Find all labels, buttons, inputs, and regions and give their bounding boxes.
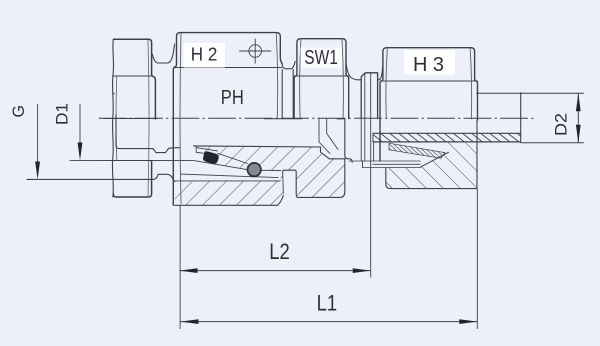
O-ring seal (gray circle) xyxy=(248,163,261,176)
dimensions xyxy=(9,93,581,329)
nut hex H3 outline xyxy=(380,48,478,161)
dim L1 xyxy=(181,189,478,329)
svg-text:L1: L1 xyxy=(317,291,338,316)
solid bore edge segment under H2-SW1 neck xyxy=(264,118,302,120)
label box H3 xyxy=(404,50,455,75)
centerline solid segment under union nut xyxy=(104,118,158,120)
neck between H2 and SW1 (upper) xyxy=(282,62,295,69)
tube tip groove to body mouth xyxy=(153,148,180,153)
svg-text:D1: D1 xyxy=(52,103,71,125)
texts xyxy=(191,44,444,109)
body hex SW1 outline xyxy=(294,39,349,119)
svg-text:PH: PH xyxy=(221,87,244,109)
svg-text:H 2: H 2 xyxy=(191,44,218,64)
dim D2 xyxy=(552,93,581,143)
tube end vertical xyxy=(520,93,522,143)
tube wall section strip (right) xyxy=(373,133,521,161)
dim D1 xyxy=(52,103,82,161)
label box SW1 xyxy=(301,48,343,68)
cutting ring wedge (right, fine hatch) xyxy=(389,143,445,158)
speck on union nut flat xyxy=(113,93,115,95)
tube D2 (right, upper outline) xyxy=(477,92,584,94)
D2 lower extension line xyxy=(522,142,584,144)
line right of O-ring xyxy=(261,169,281,171)
svg-text:SW1: SW1 xyxy=(304,47,338,69)
stud silhouette between nut and body (lower) + G thread line xyxy=(27,174,174,181)
D1 extension line xyxy=(70,159,194,161)
marking stamp (crosshair on H2) xyxy=(240,39,272,63)
svg-text:L2: L2 xyxy=(269,239,290,264)
nut H3 section walls (hatched) xyxy=(363,120,478,189)
washer lower region and pocket outlines xyxy=(345,119,421,164)
dim G xyxy=(9,104,40,179)
dim L2 xyxy=(180,119,371,329)
ring seat slant line xyxy=(194,161,247,170)
nut bore (hidden tube) under union nut xyxy=(116,115,153,149)
centerline xyxy=(99,117,537,119)
svg-text:H 3: H 3 xyxy=(413,53,444,76)
svg-text:G: G xyxy=(9,105,28,118)
neck between washer and H3 (upper) xyxy=(378,64,383,80)
svg-text:D2: D2 xyxy=(552,113,571,136)
body section: stud wall, flange and right cone (hatched) xyxy=(175,118,345,206)
thread notch in right cone bore xyxy=(319,118,330,154)
body hex H2 outline xyxy=(173,33,282,206)
bore line of body xyxy=(194,146,345,159)
union nut (left, small hex) xyxy=(113,39,156,197)
valley groove outline xyxy=(282,172,285,194)
stud silhouette between nut and body (upper) xyxy=(152,44,174,63)
label box H2 xyxy=(184,43,226,68)
washer / ring (upper) xyxy=(361,73,377,119)
mass top line xyxy=(175,180,281,182)
body bottom silhouette xyxy=(175,196,284,206)
thread root line xyxy=(181,174,278,178)
left tube break (wavy end) xyxy=(112,39,113,197)
neck between SW1 and washer (upper) xyxy=(346,62,361,80)
cutting ring (left, dark) xyxy=(196,146,247,164)
